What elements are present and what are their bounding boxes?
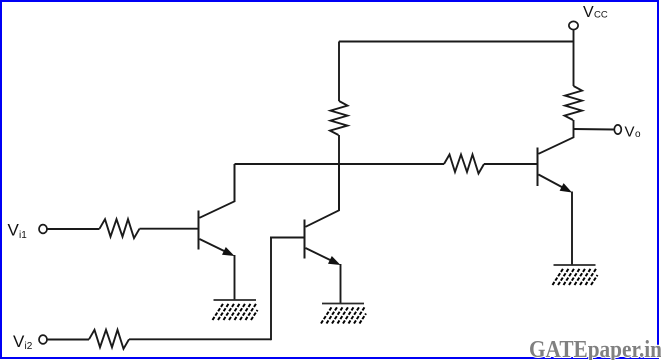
Q3 emitter (539, 175, 566, 190)
Q3 collector (539, 129, 574, 154)
svg-text:GATEpaper.in: GATEpaper.in (529, 337, 661, 360)
svg-text:i2: i2 (25, 341, 33, 352)
resistor R5 (Vi2 input) (89, 330, 129, 349)
wire Vi1 to R4 (47, 228, 100, 230)
Q1 emitter wire down (234, 255, 236, 300)
wire R3 to Q3 base (484, 163, 537, 165)
Vcc terminal (569, 21, 578, 29)
Q3 emitter wire down (571, 192, 573, 266)
wire R4 to Q1 base (140, 228, 198, 230)
wire riser to Q2 base (270, 237, 304, 239)
Q2 collector (306, 164, 340, 227)
transistor Q2 base bar (304, 220, 306, 259)
wire R1 bottom to Q2 collector (338, 135, 340, 211)
wire R2 bottom to junction (573, 120, 575, 129)
svg-text:CC: CC (594, 10, 608, 21)
ground G2 (322, 303, 364, 305)
svg-text:V: V (625, 124, 635, 141)
terminal Vi2 (39, 335, 47, 344)
transistor Q1 base bar (198, 211, 200, 250)
wire left branch vertical top (338, 42, 340, 102)
terminal V0 (614, 125, 621, 134)
Q2 emitter wire down (340, 264, 342, 304)
svg-text:o: o (635, 129, 641, 140)
svg-text:V: V (583, 4, 594, 21)
Q2 emitter (306, 248, 335, 262)
Q1 collector (200, 164, 235, 218)
wire R5 right horizontal (129, 338, 271, 340)
ground G1 (214, 299, 257, 301)
wire Vi2 vertical riser (270, 237, 272, 341)
wire Vcc vertical (573, 30, 575, 86)
ground G3 (554, 264, 596, 266)
wire Vi2 to R5 (47, 339, 89, 341)
Q3 emitter arrow (560, 183, 572, 192)
svg-text:i1: i1 (19, 230, 27, 241)
resistor R1 (left vertical) (330, 101, 348, 135)
svg-text:V: V (8, 221, 20, 240)
wire V0 output (574, 128, 614, 131)
Q1 emitter (200, 239, 229, 253)
resistor R2 (right vertical, Vcc) (565, 86, 583, 120)
wire Q1 collector vertical (234, 164, 236, 202)
svg-text:V: V (13, 332, 25, 351)
Q1 emitter arrow (222, 247, 235, 256)
Q2 emitter arrow (328, 256, 341, 265)
resistor R3 (horizontal, base Q3) (444, 155, 484, 174)
wire top horizontal (339, 41, 574, 43)
terminal Vi1 (39, 225, 47, 234)
transistor Q3 base bar (537, 148, 539, 187)
resistor R4 (Vi1 input) (100, 219, 140, 238)
wire bus horizontal (235, 163, 445, 165)
